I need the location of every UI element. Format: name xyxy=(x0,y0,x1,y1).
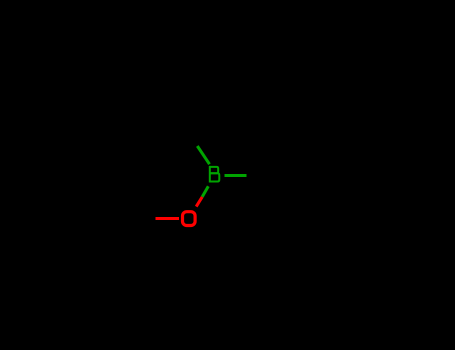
wire: C-B bond upper-left green half xyxy=(197,146,209,164)
wire: B-O bond green half xyxy=(202,186,208,197)
wire: B-C bond right green half xyxy=(224,174,246,177)
atom B xyxy=(210,166,220,183)
wire: B-O bond red half xyxy=(196,197,202,207)
atom O xyxy=(183,212,196,226)
wire: O-C bond left red half xyxy=(155,217,179,220)
